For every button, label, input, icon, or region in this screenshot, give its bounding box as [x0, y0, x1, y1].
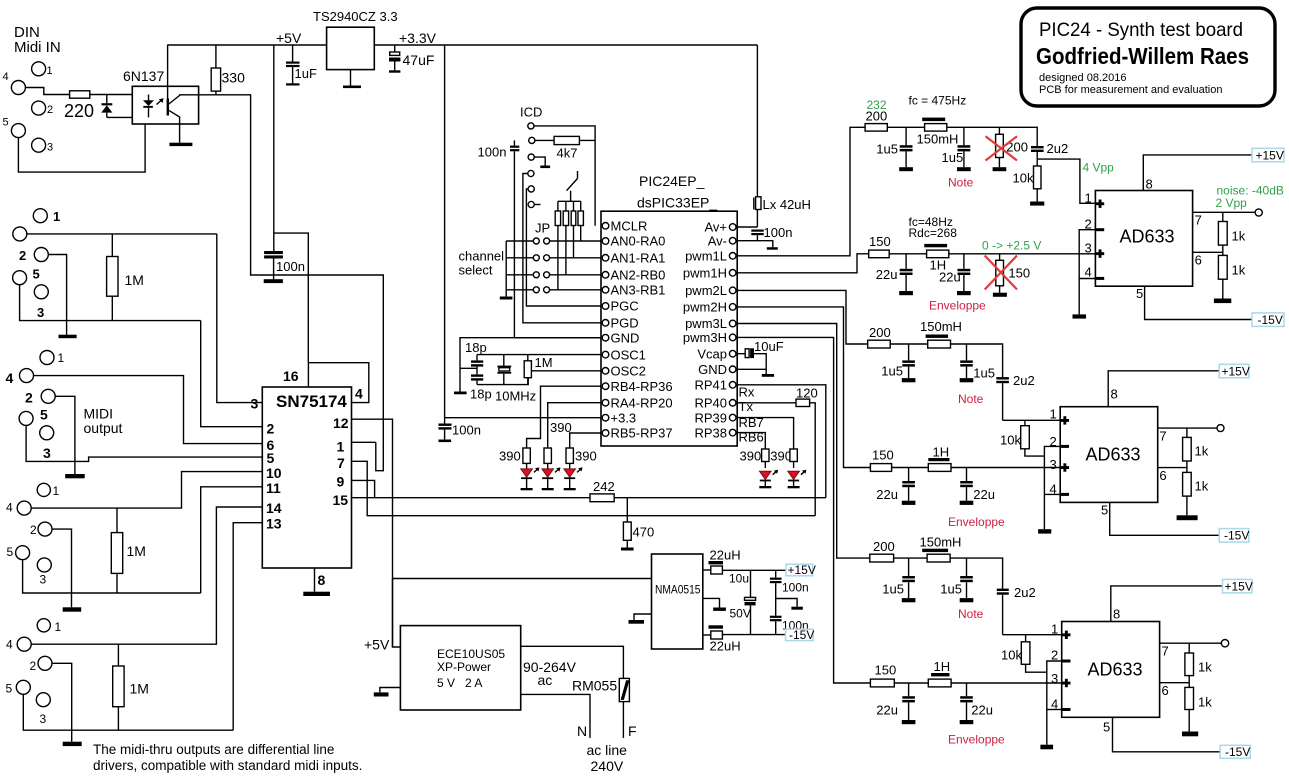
-15V label box [1252, 313, 1284, 327]
LED D5 [759, 470, 778, 489]
pullup switch [558, 171, 581, 201]
wire pwm3L to chain5 [736, 324, 870, 559]
svg-text:242: 242 [593, 479, 615, 494]
svg-text:2: 2 [30, 523, 37, 537]
svg-text:22u: 22u [971, 703, 993, 718]
svg-text:AD633: AD633 [1086, 445, 1141, 465]
svg-text:RA4-RP20: RA4-RP20 [611, 395, 673, 410]
ground (JP) [500, 297, 513, 300]
resistor 1M (osc) [524, 355, 552, 385]
right pin Av+ [729, 224, 736, 231]
svg-text:2u2: 2u2 [1014, 585, 1036, 600]
ground (AD1 1k) [1214, 299, 1231, 304]
pullup resistor 3 [571, 201, 576, 257]
jumper row AN3 [506, 287, 601, 293]
svg-text:Enveloppe: Enveloppe [929, 299, 986, 313]
capacitor 22u b (chain2) [939, 254, 971, 295]
svg-text:+15V: +15V [1225, 579, 1253, 593]
svg-text:Vcap: Vcap [697, 346, 727, 361]
resistor 1k (AD1 b) [1218, 245, 1245, 298]
wire OSC2 row [477, 371, 601, 385]
connector J1 circles [32, 62, 46, 76]
capacitor 22u a (chain6) [876, 683, 915, 724]
-15V label box [786, 629, 814, 640]
+5V rail wire [167, 44, 326, 46]
LED D4 [564, 467, 583, 490]
resistor 1M (J5) [113, 644, 149, 730]
svg-text:N: N [577, 723, 587, 739]
crystal 10MHz [495, 355, 536, 404]
left pin RA4-RP20 [602, 399, 609, 406]
svg-text:1: 1 [53, 484, 60, 498]
connector J2 midi thru circles [33, 209, 47, 223]
capacitor 1u5 a (chain5) [882, 558, 915, 602]
wire chain6 rail [894, 682, 928, 684]
svg-text:+3.3V: +3.3V [399, 30, 437, 46]
svg-text:3: 3 [43, 445, 51, 461]
wire RA4 to LED2 [548, 403, 601, 448]
resistor 390 (LED2) [544, 420, 572, 469]
svg-text:1: 1 [53, 209, 60, 224]
inductor 1H (chain4) [928, 458, 951, 471]
svg-text:100n: 100n [478, 145, 507, 160]
wire RP41 Rx to 242 rail [736, 385, 826, 498]
svg-text:-15V: -15V [1224, 529, 1249, 543]
wire J4 pin2 to ground [52, 529, 72, 607]
wire AD1 pin8 to +15V [1143, 155, 1252, 191]
ground (crystal) [454, 392, 467, 395]
svg-text:Godfried-Willem Raes: Godfried-Willem Raes [1036, 43, 1249, 69]
resistor 10k (chain3) [1000, 420, 1044, 456]
wire +3.3 row [445, 417, 601, 419]
svg-text:390: 390 [740, 448, 762, 463]
svg-text:4: 4 [6, 638, 13, 652]
wire chain5 rail [894, 557, 928, 559]
resistor 150 (chain4) [870, 464, 891, 472]
svg-text:F: F [628, 723, 637, 739]
svg-text:JP: JP [535, 221, 550, 236]
wire J5 pin4 to SN pin14 [31, 507, 262, 644]
right pin Vcap [729, 350, 736, 357]
svg-text:1k: 1k [1198, 695, 1212, 710]
+3.3V rail wire [374, 44, 757, 46]
pin 16 [307, 363, 309, 387]
fuse RM055 [572, 678, 629, 738]
svg-text:120: 120 [796, 386, 818, 401]
capacitor 10uF (Vcap) [736, 339, 784, 374]
svg-text:6: 6 [1162, 683, 1169, 698]
svg-text:5: 5 [3, 117, 9, 129]
wire AD3 pin7 output [1160, 642, 1222, 644]
wire 120 to Tx rail [810, 403, 816, 516]
wire RB5 to LED3 [570, 433, 601, 448]
svg-text:-15V: -15V [1225, 745, 1250, 759]
svg-text:18p: 18p [465, 340, 487, 355]
pin 12 wire [352, 419, 393, 647]
svg-text:1M: 1M [125, 272, 144, 288]
resistor 1M (J4) [111, 508, 146, 593]
svg-text:RP38: RP38 [694, 425, 727, 440]
svg-text:drivers, compatible with stand: drivers, compatible with standard midi i… [93, 758, 362, 773]
svg-text:3: 3 [1085, 241, 1092, 256]
svg-text:TS2940CZ 3.3: TS2940CZ 3.3 [313, 9, 398, 24]
svg-text:1: 1 [47, 65, 53, 77]
svg-text:AD633: AD633 [1120, 227, 1175, 247]
wire +5V branch to SN75174 pin16/pin4 [274, 233, 309, 363]
svg-text:6N137: 6N137 [123, 68, 164, 84]
svg-text:3: 3 [251, 396, 259, 412]
capacitor 22u a (chain2) [876, 254, 913, 295]
inductor Lx 42uH [754, 45, 811, 227]
svg-text:ECE10US05: ECE10US05 [437, 647, 505, 661]
svg-text:Note: Note [948, 176, 974, 190]
crossed resistor 200 (chain1) [986, 127, 1029, 171]
capacitor 18p bottom [470, 368, 492, 401]
ground J4 [63, 607, 81, 611]
svg-text:5 V 2 A: 5 V 2 A [437, 676, 482, 690]
left pin AN1-RA1 [602, 254, 609, 261]
svg-text:+15V: +15V [788, 563, 816, 577]
capacitor 100n (+3.3) [439, 418, 481, 440]
wire AD2 pin6 [1158, 467, 1187, 469]
wire return to pin5 [18, 117, 145, 172]
capacitor 1u5 a (chain1) [876, 127, 913, 171]
IC U3 SN75174 [262, 387, 351, 568]
resistor 150 (chain2) [869, 250, 890, 258]
svg-text:2: 2 [267, 421, 275, 437]
svg-text:AN2-RB0: AN2-RB0 [611, 268, 666, 283]
svg-text:+3.3: +3.3 [611, 410, 637, 425]
NMA mid pin to ground [703, 598, 726, 611]
svg-text:Rx: Rx [739, 385, 755, 400]
svg-text:150: 150 [869, 234, 891, 249]
left pin +3.3 [602, 414, 609, 421]
wire chain4 rail [892, 467, 929, 469]
wire AD1 pins 2/4 bracket to ground [1079, 230, 1095, 315]
svg-text:PGC: PGC [611, 299, 639, 314]
svg-text:6: 6 [1195, 253, 1202, 268]
svg-text:Rdc=268: Rdc=268 [909, 226, 958, 240]
ground (AD3 1k) [1182, 732, 1198, 737]
right pin RP40 [729, 400, 736, 407]
resistor 470 [623, 498, 654, 548]
svg-text:PCB for measurement and evalua: PCB for measurement and evaluation [1039, 84, 1222, 96]
wire +5 input to NMA [393, 578, 652, 580]
left pin RB4-RP36 [602, 383, 609, 390]
wire RB4 to LED1 [527, 386, 601, 448]
svg-text:2: 2 [30, 659, 37, 673]
opto LED [143, 95, 164, 118]
IC U8 AD633 [1062, 622, 1160, 718]
svg-text:OSC2: OSC2 [611, 364, 646, 379]
svg-text:2: 2 [47, 104, 53, 116]
svg-text:1u5: 1u5 [940, 582, 962, 597]
-15V label box [1219, 529, 1249, 543]
capacitor 100n (+15) [770, 570, 809, 616]
svg-text:10k: 10k [1001, 648, 1022, 663]
capacitor 100n (Av) [751, 225, 792, 241]
inductor 150mH (chain5) [922, 549, 950, 562]
svg-text:1M: 1M [127, 543, 146, 559]
svg-text:4 Vpp: 4 Vpp [1083, 161, 1115, 175]
svg-text:RM055: RM055 [572, 678, 617, 694]
IC U5 NMA0515 [652, 554, 703, 649]
pullup resistor 2 [563, 201, 568, 274]
IC U6 AD633 [1095, 191, 1192, 287]
svg-text:22uH: 22uH [710, 639, 741, 654]
jumper row AN0 [506, 238, 601, 244]
svg-text:+15V: +15V [1256, 148, 1284, 162]
PSU ECE10US05 [400, 626, 520, 710]
svg-text:1u5: 1u5 [973, 366, 995, 381]
svg-text:13: 13 [266, 516, 282, 532]
svg-text:22uH: 22uH [710, 548, 741, 563]
jumper row AN1 [506, 255, 601, 261]
svg-text:12: 12 [333, 415, 349, 431]
svg-text:3: 3 [1050, 457, 1057, 472]
opto transistor [167, 45, 199, 143]
+15V label box [1223, 579, 1253, 593]
svg-text:Enveloppe: Enveloppe [948, 733, 1005, 747]
svg-text:Note: Note [958, 607, 984, 621]
svg-text:1k: 1k [1195, 444, 1209, 459]
svg-text:150: 150 [1008, 266, 1030, 281]
capacitor 1u5 b (chain5) [940, 558, 973, 602]
ground (100n +3.3) [439, 440, 452, 443]
wire J2 pin2 to ground [48, 255, 66, 335]
svg-text:pwm1L: pwm1L [685, 249, 727, 264]
left pin AN0-RA0 [602, 238, 609, 245]
svg-text:AN1-RA1: AN1-RA1 [611, 251, 666, 266]
connector J4 circles [37, 483, 50, 496]
jumper ground bracket [505, 241, 507, 297]
wire J4 pin4 to SN pin10 [31, 472, 262, 509]
svg-text:-15V: -15V [1258, 313, 1283, 327]
wire pwm1L to chain1 [736, 127, 865, 256]
IC U7 AD633 [1060, 407, 1158, 503]
svg-text:200: 200 [869, 325, 891, 340]
svg-text:0 -> +2.5 V: 0 -> +2.5 V [982, 239, 1041, 253]
svg-text:2: 2 [25, 390, 33, 406]
svg-text:1u5: 1u5 [882, 582, 904, 597]
wire AD2 pin7 output [1158, 427, 1217, 429]
diode D1 [101, 95, 112, 118]
ground J3 [65, 474, 85, 478]
svg-text:200: 200 [873, 539, 895, 554]
svg-text:AD633: AD633 [1088, 660, 1143, 680]
svg-text:100n: 100n [276, 259, 305, 274]
svg-text:OSC1: OSC1 [611, 347, 646, 362]
svg-text:22u: 22u [876, 267, 898, 282]
svg-text:NMA0515: NMA0515 [655, 585, 701, 597]
resistor 1k (AD1 a) [1218, 212, 1245, 245]
left pin MCLR [602, 223, 609, 230]
svg-text:Note: Note [958, 392, 984, 406]
wire J2 pin5 line [20, 285, 201, 321]
wire to SN pin2 [201, 321, 263, 427]
wire GND pin [736, 368, 766, 370]
wire pwm1H to chain2 [736, 254, 869, 273]
svg-text:designed 08.2016: designed 08.2016 [1039, 72, 1126, 84]
svg-text:100n: 100n [452, 423, 481, 438]
svg-text:4: 4 [355, 386, 363, 402]
wire ac live to fuse [521, 646, 624, 678]
svg-text:SN75174: SN75174 [276, 392, 347, 411]
svg-text:4: 4 [6, 370, 14, 386]
crossed resistor 150 (chain2) [985, 254, 1030, 297]
LED D6 [788, 470, 807, 489]
connector J5 circles [37, 619, 50, 632]
svg-text:1uF: 1uF [295, 66, 317, 81]
wire to SN pin3 [217, 234, 262, 403]
inductor 150mH (chain3) [926, 335, 951, 349]
svg-text:1: 1 [1085, 191, 1092, 206]
wire +5V up [393, 579, 401, 648]
wire ICD2 to 4k7 [535, 139, 554, 141]
svg-text:390: 390 [575, 449, 597, 464]
svg-text:Enveloppe: Enveloppe [948, 515, 1005, 529]
svg-text:22u: 22u [876, 703, 898, 718]
svg-text:5: 5 [1136, 286, 1143, 301]
wire ICD4 to PGD [523, 174, 601, 323]
capacitor 100n (-15) [770, 616, 809, 635]
svg-text:150mH: 150mH [917, 132, 959, 147]
svg-text:select: select [459, 263, 493, 278]
right pin RP41 [729, 382, 736, 389]
svg-text:2: 2 [19, 248, 26, 263]
resistor 390 (LED3) [566, 448, 597, 469]
svg-text:1u5: 1u5 [881, 364, 903, 379]
wire RP38 to LED6 [736, 433, 765, 449]
svg-text:+5V: +5V [276, 30, 302, 46]
wire AD2 pin8 to +15V [1108, 371, 1219, 407]
svg-text:390: 390 [499, 449, 521, 464]
svg-text:AN3-RB1: AN3-RB1 [611, 283, 666, 298]
svg-text:RP40: RP40 [694, 396, 727, 411]
svg-text:RP41: RP41 [694, 378, 727, 393]
wire to AD1 pin1 [1037, 159, 1095, 203]
svg-text:470: 470 [633, 525, 655, 540]
svg-text:10: 10 [266, 465, 282, 481]
resistor 4k7 [554, 136, 579, 144]
wire gnd branch [460, 338, 601, 392]
wire 4k7 to MCLR line [579, 139, 595, 141]
wire ICD1 to MCLR [534, 126, 595, 226]
capacitor 2u2 (chain3) [996, 373, 1034, 420]
wire ac neutral [521, 694, 590, 738]
ground (opto emitter) [169, 143, 192, 146]
svg-text:330: 330 [222, 70, 246, 86]
svg-text:1k: 1k [1198, 660, 1212, 675]
wire RP40 Tx to 120 [736, 402, 796, 404]
svg-text:4: 4 [3, 71, 9, 83]
svg-text:RP39: RP39 [694, 410, 727, 425]
inductor 1H (chain6) [928, 673, 951, 687]
svg-text:10k: 10k [1013, 171, 1034, 186]
wire ICD3 to ground [534, 157, 545, 165]
svg-text:15: 15 [333, 492, 349, 508]
svg-text:pwm2H: pwm2H [683, 300, 727, 315]
left pin GND [602, 334, 609, 341]
svg-text:1M: 1M [535, 355, 553, 370]
svg-text:1u5: 1u5 [942, 150, 964, 165]
svg-text:1k: 1k [1232, 263, 1246, 278]
wire pin4 to resistor [25, 88, 69, 95]
svg-text:1: 1 [1051, 622, 1058, 637]
svg-text:150mH: 150mH [920, 535, 962, 550]
NMA ground [629, 614, 652, 624]
svg-text:10MHz: 10MHz [495, 389, 536, 404]
svg-text:200: 200 [866, 109, 888, 124]
svg-text:4: 4 [1085, 265, 1092, 280]
svg-text:8: 8 [1113, 607, 1120, 622]
right pin pwm2L [729, 287, 736, 294]
-15V label box [1220, 745, 1250, 758]
capacitor 2u2 (chain5) [997, 585, 1036, 635]
left pin AN2-RB0 [602, 272, 609, 279]
wire J5 pin2 to ground [52, 663, 72, 741]
svg-text:150: 150 [875, 663, 897, 678]
LED D2 [521, 467, 540, 490]
resistor 1k (AD3 b) [1185, 676, 1212, 732]
ground (AD2 1k) [1177, 515, 1198, 520]
wire J4 pin5 line [23, 560, 201, 593]
wire resistor to opto [90, 94, 149, 96]
svg-text:3: 3 [37, 305, 44, 320]
wire pwm2L to chain3 [736, 290, 868, 344]
capacitor 100n (+5V) [264, 251, 305, 283]
pullup resistor 1 [555, 201, 560, 289]
resistor 200 (chain1) [865, 124, 887, 132]
svg-text:ac: ac [538, 672, 553, 688]
wire to AD3 pin1 [1003, 634, 1062, 636]
capacitor 22u b (chain4) [960, 468, 995, 505]
resistor 390 (RB6) [740, 448, 770, 468]
svg-text:22u: 22u [876, 487, 898, 502]
left pin OSC1 [602, 351, 609, 358]
right pin GND [729, 366, 736, 373]
wire pwm3H to chain6 [736, 337, 870, 683]
svg-text:8: 8 [1111, 387, 1118, 402]
svg-text:100n: 100n [764, 225, 793, 240]
ground (100n mid) [776, 599, 803, 610]
capacitor 1u5 b (chain1) [942, 127, 971, 171]
pin 9 wire [352, 480, 375, 497]
svg-text:100n: 100n [782, 581, 809, 595]
wire chain2 rail [889, 253, 926, 255]
svg-text:1k: 1k [1195, 479, 1209, 494]
svg-text:2: 2 [1051, 648, 1058, 663]
svg-text:3: 3 [40, 573, 47, 587]
svg-text:3: 3 [40, 712, 47, 726]
right pin RP39 [729, 414, 736, 421]
svg-text:10k: 10k [1000, 433, 1021, 448]
wire caps junction to gnd vertical [460, 367, 477, 369]
svg-text:2u2: 2u2 [1047, 141, 1069, 156]
svg-text:2u2: 2u2 [1013, 373, 1035, 388]
wire RP39 to LED5 [736, 418, 794, 449]
wire ICD5 to PGC [526, 189, 601, 306]
svg-text:150mH: 150mH [920, 319, 962, 334]
left pin RB5-RP37 [602, 430, 609, 437]
svg-text:RB5-RP37: RB5-RP37 [611, 426, 673, 441]
svg-text:PIC24 - Synth test board: PIC24 - Synth test board [1039, 19, 1243, 41]
capacitor 10u 50V [729, 570, 756, 634]
svg-text:Av-: Av- [708, 233, 727, 248]
wire AD2 pin5 to -15V [1110, 502, 1220, 535]
svg-text:1: 1 [55, 620, 62, 634]
svg-text:+15V: +15V [1222, 364, 1250, 378]
